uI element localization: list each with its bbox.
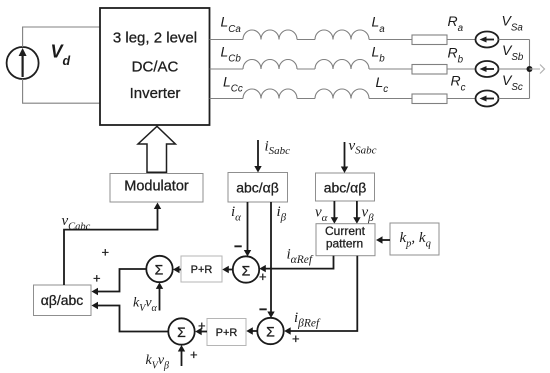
resistor Ra — [412, 35, 447, 45]
wire phase a — [210, 39, 244, 41]
inductor LCb — [243, 60, 297, 70]
svg-text:3 leg, 2 level: 3 leg, 2 level — [113, 29, 197, 46]
abc/ab transform box 2 — [316, 173, 375, 201]
inductor LCa — [243, 30, 297, 40]
wire sigma beta error to P+R — [246, 327, 257, 334]
svg-text:abc/αβ: abc/αβ — [324, 180, 367, 196]
wire — [369, 98, 412, 100]
svg-text:DC/AC: DC/AC — [132, 58, 179, 75]
svg-text:+: + — [102, 245, 110, 260]
bus wire — [529, 40, 531, 99]
ab/abc box — [34, 285, 92, 316]
svg-text:pattern: pattern — [326, 237, 363, 251]
node N — [527, 66, 533, 72]
svg-text:P+R: P+R — [191, 264, 213, 276]
P+R box alpha — [181, 256, 222, 282]
wire to grid — [530, 68, 541, 70]
wire sigma to P+R alpha — [222, 266, 233, 273]
inductor LCc — [243, 89, 297, 98]
wire dc bottom — [23, 79, 100, 103]
svg-text:Modulator: Modulator — [124, 179, 189, 195]
svg-text:−: − — [234, 238, 242, 254]
current pattern box — [316, 224, 375, 256]
wire kpq to current pattern — [376, 236, 390, 243]
wire phase b — [210, 68, 244, 70]
source VSc — [476, 91, 499, 107]
resistor Rc — [412, 94, 447, 104]
signal vSabc — [341, 138, 377, 173]
source VSa — [476, 32, 499, 48]
wire — [447, 98, 476, 100]
svg-text:Σ: Σ — [155, 262, 164, 278]
signal i_alphaRef — [259, 246, 333, 272]
inductor La — [315, 30, 369, 40]
P+R box beta — [207, 319, 246, 346]
wire P+R beta to sigma beta — [195, 328, 207, 335]
svg-text:Σ: Σ — [266, 324, 275, 340]
wire — [369, 39, 412, 41]
signal i_alpha — [231, 202, 251, 257]
inductor Lc — [315, 89, 369, 98]
svg-text:abc/αβ: abc/αβ — [236, 180, 279, 196]
wire phase c — [210, 98, 244, 100]
dc source Vd — [7, 47, 39, 79]
wire P+R to sigma alpha — [173, 266, 181, 273]
svg-text:+: + — [190, 347, 198, 362]
wire dc top — [23, 27, 100, 47]
wire — [297, 98, 315, 100]
summer sigma alpha error — [233, 256, 259, 282]
wire — [447, 39, 476, 41]
wire sigma alpha to ab/abc — [92, 269, 147, 295]
svg-text:−: − — [259, 301, 267, 317]
svg-text:Inverter: Inverter — [130, 85, 181, 102]
resistor Rb — [412, 65, 447, 75]
wire — [369, 68, 412, 70]
source VSb — [476, 61, 499, 77]
wire — [297, 68, 315, 70]
svg-text:+: + — [259, 269, 267, 284]
signal i_betaRef — [284, 256, 357, 335]
signal kV v_alpha — [133, 282, 163, 314]
wire — [499, 39, 530, 41]
wire sigma beta to ab/abc — [92, 302, 169, 332]
wire — [447, 68, 476, 70]
signal v_beta — [353, 201, 374, 224]
kp kq box — [390, 223, 439, 255]
summer sigma beta — [168, 318, 194, 344]
wire — [297, 39, 315, 41]
svg-text:Σ: Σ — [177, 324, 186, 340]
summer sigma beta error — [257, 318, 283, 344]
svg-text:Σ: Σ — [242, 263, 251, 279]
signal v_Cabc to modulator — [62, 203, 162, 286]
svg-text:αβ/abc: αβ/abc — [41, 292, 84, 308]
wire — [499, 98, 530, 100]
svg-text:+: + — [93, 271, 101, 286]
inductor Lb — [315, 60, 369, 70]
signal i_beta — [267, 202, 286, 318]
modulator box — [110, 174, 203, 203]
abc/ab transform box 1 — [228, 173, 288, 203]
signal iSabc — [254, 139, 290, 173]
signal v_alpha — [315, 201, 338, 224]
signal kV v_beta — [146, 345, 186, 372]
svg-text:+: + — [292, 331, 300, 346]
inverter U1 — [100, 8, 210, 125]
big arrow modulator to inverter — [138, 126, 175, 172]
svg-text:P+R: P+R — [216, 327, 238, 339]
summer sigma alpha — [146, 256, 172, 282]
wire — [499, 68, 530, 70]
